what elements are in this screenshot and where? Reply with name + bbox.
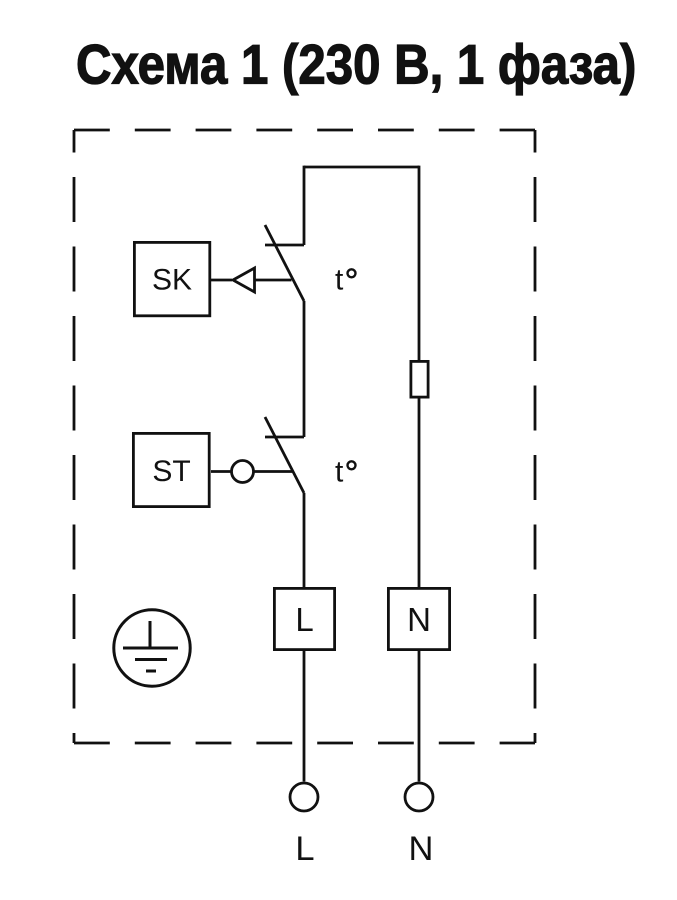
svg-text:L: L bbox=[295, 830, 314, 868]
svg-text:Схема 1 (230 В, 1 фаза): Схема 1 (230 В, 1 фаза) bbox=[76, 34, 636, 97]
svg-text:L: L bbox=[295, 601, 313, 638]
svg-text:N: N bbox=[409, 830, 434, 868]
svg-text:ST: ST bbox=[152, 455, 190, 488]
svg-text:t: t bbox=[335, 456, 344, 489]
svg-text:N: N bbox=[407, 601, 431, 638]
svg-text:SK: SK bbox=[152, 264, 192, 297]
svg-text:t: t bbox=[335, 264, 344, 297]
